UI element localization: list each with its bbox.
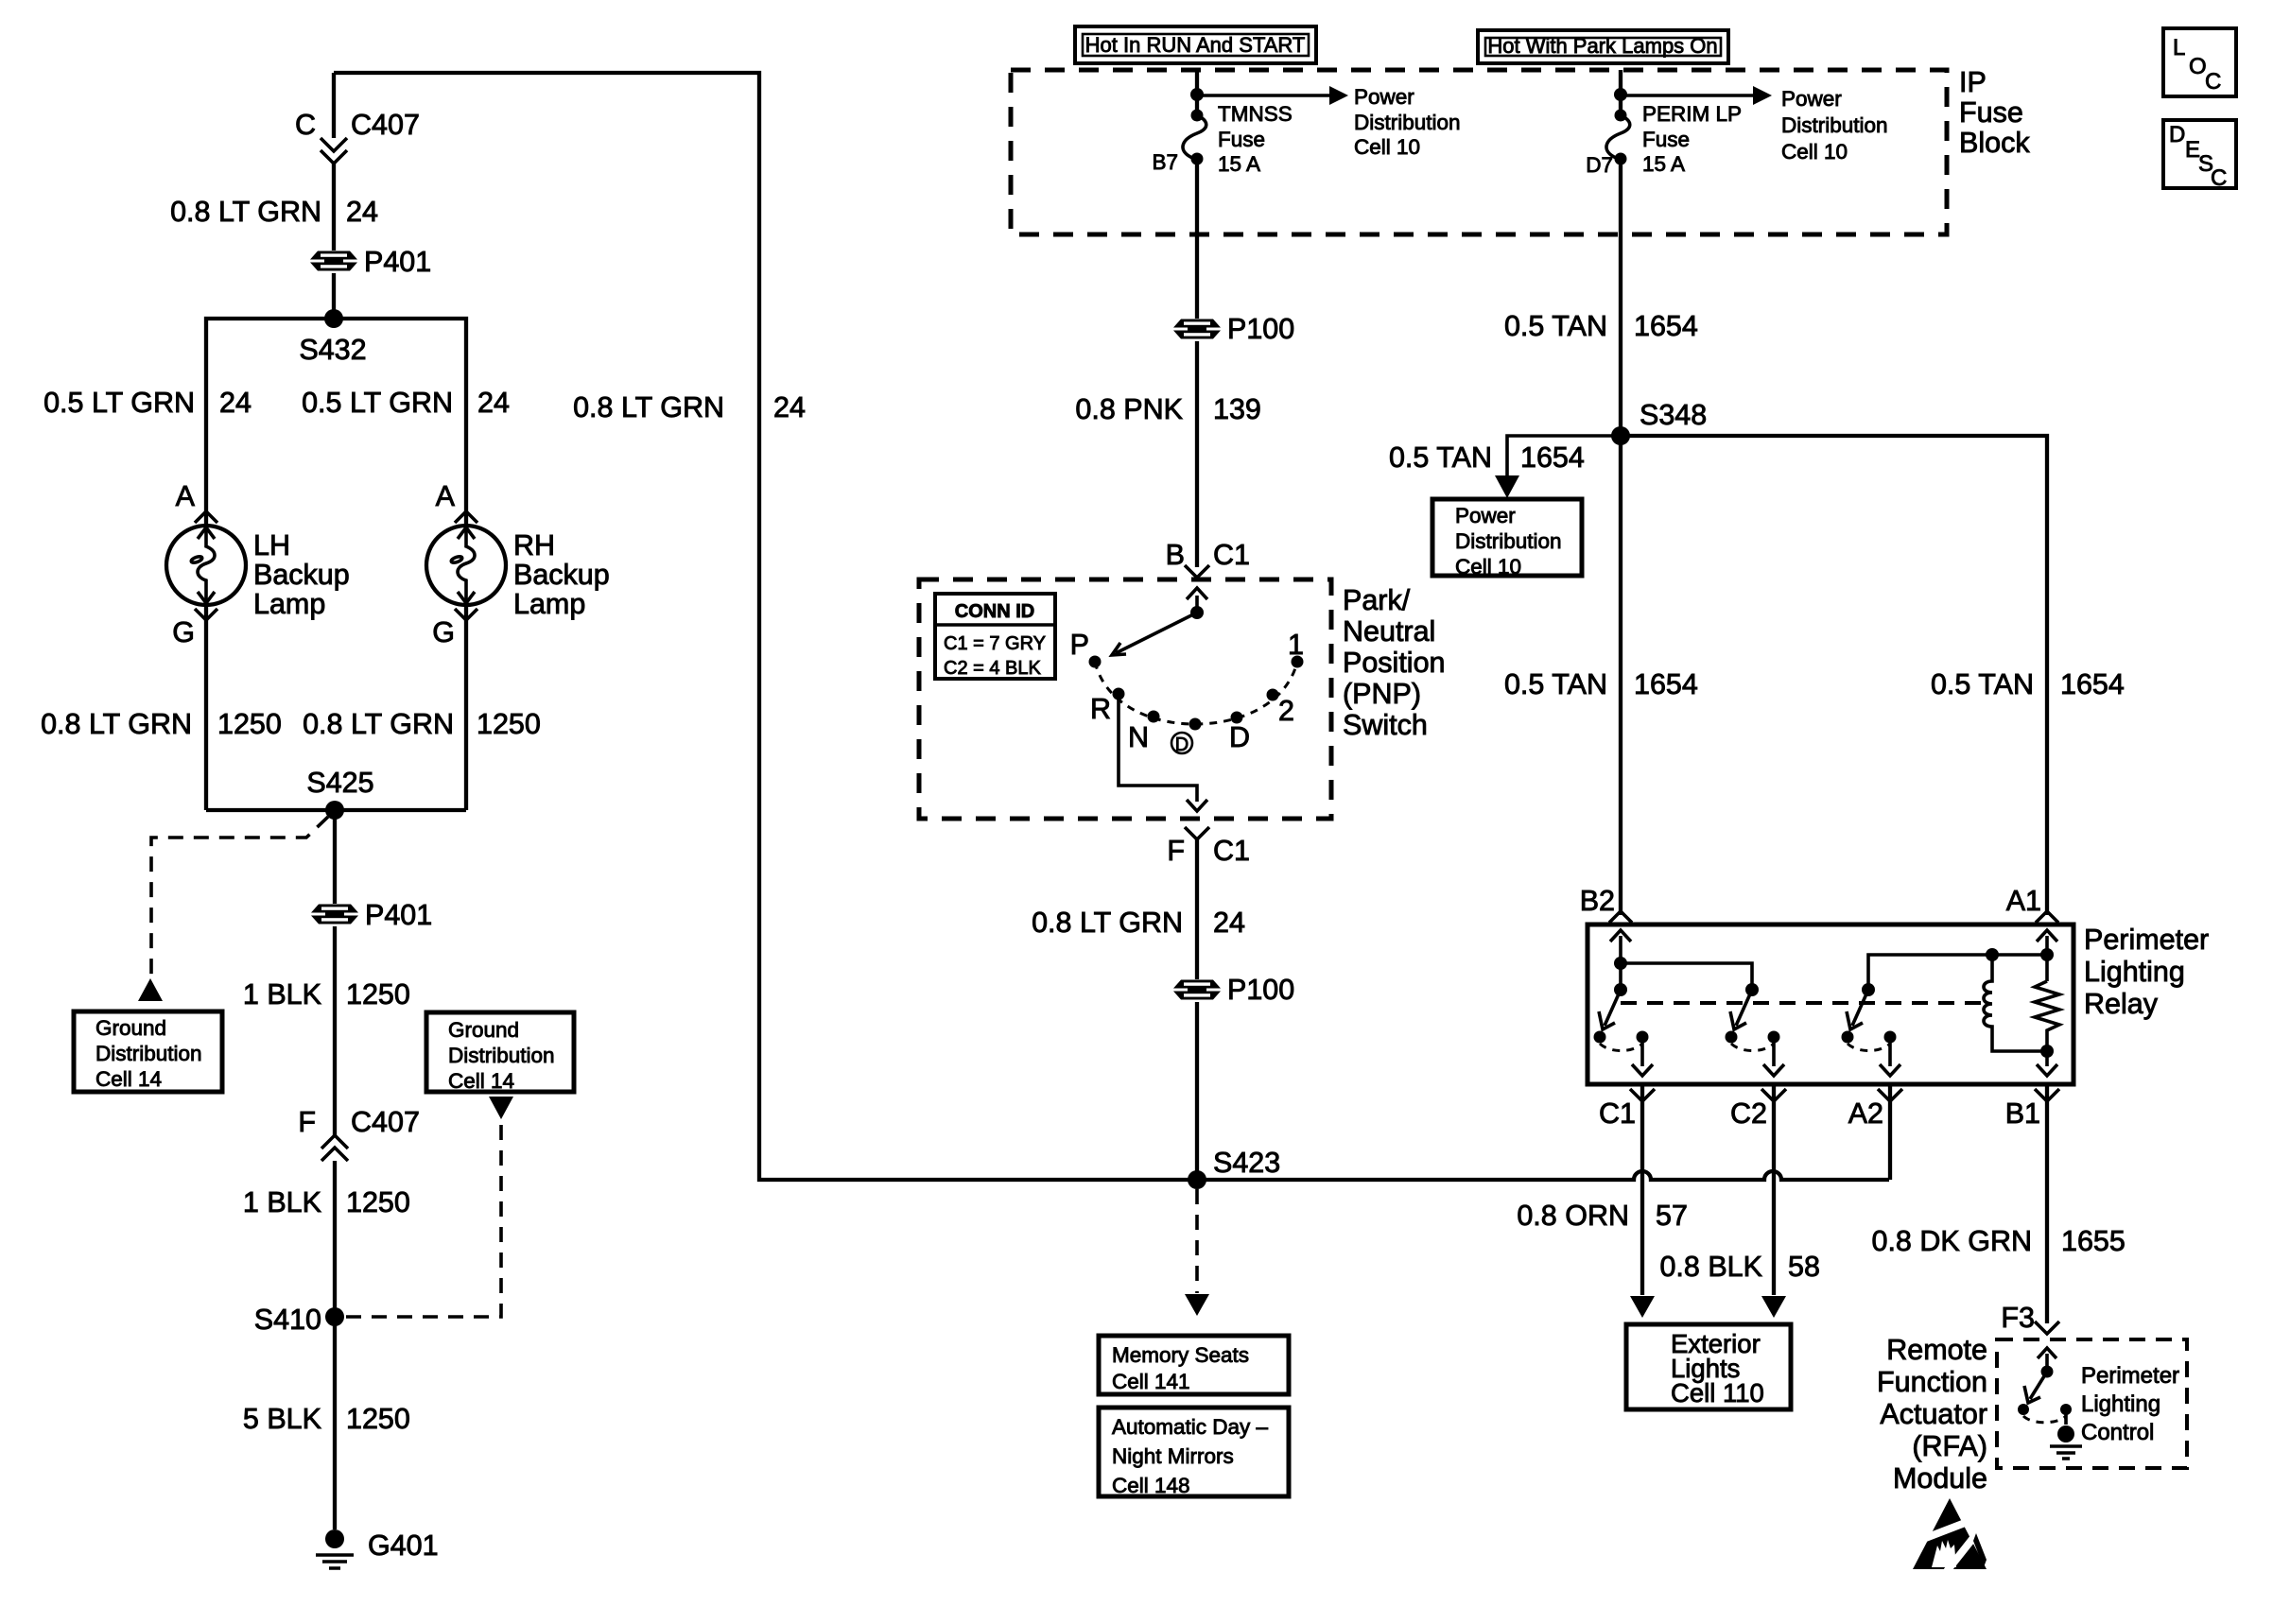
svg-text:58: 58 <box>1788 1251 1820 1283</box>
fuse TMNSS 15 A <box>1191 110 1204 122</box>
svg-text:F3: F3 <box>2001 1302 2035 1334</box>
contact D <box>1231 712 1243 724</box>
node: PERIM LP feed junction <box>1614 88 1627 101</box>
contact N <box>1148 711 1160 723</box>
svg-text:Module: Module <box>1893 1462 1987 1494</box>
LH backup lamp <box>166 526 246 605</box>
svg-text:0.8 ORN: 0.8 ORN <box>1517 1200 1629 1232</box>
wire: F to P100 lower <box>1195 839 1199 979</box>
relay A1 internal feed with up arrow <box>2045 936 2049 981</box>
svg-text:IP: IP <box>1959 66 1987 98</box>
svg-text:B2: B2 <box>1580 885 1615 917</box>
wire: S425 tie bar <box>206 808 466 812</box>
box: Hot With Park Lamps On (double border) <box>1478 30 1728 63</box>
relay switch 1 contacts <box>1594 1031 1606 1044</box>
svg-text:Cell 148: Cell 148 <box>1112 1474 1190 1497</box>
svg-text:Fuse: Fuse <box>1218 128 1265 151</box>
svg-text:139: 139 <box>1213 393 1261 425</box>
svg-text:F: F <box>1167 835 1185 867</box>
connector C2 out of relay <box>1772 1084 1776 1180</box>
wire: S348 over to A1 riser <box>1621 436 2047 915</box>
arrow to Power Distribution Cell 10 (right) <box>1621 94 1753 97</box>
circled D indicator <box>1171 733 1192 753</box>
svg-text:1 BLK: 1 BLK <box>243 1186 321 1218</box>
wire: C407 to P401 <box>332 164 336 251</box>
wire: fuse D7 down to S348 <box>1619 159 1622 436</box>
perimeter lighting control switch input arrow <box>2045 1354 2049 1372</box>
svg-text:15 A: 15 A <box>1642 152 1685 176</box>
relay resistor <box>2035 981 2059 1051</box>
splice S423 <box>1188 1170 1206 1189</box>
relay switch 3 output to A2 <box>1888 1037 1892 1066</box>
svg-text:(RFA): (RFA) <box>1912 1430 1987 1462</box>
svg-text:Actuator: Actuator <box>1880 1398 1987 1430</box>
connector C407 (terminal C) <box>321 138 347 151</box>
svg-text:R: R <box>1090 693 1111 725</box>
wire: P401 to C407 (terminal F) <box>333 926 337 1136</box>
PNP switch common input arrow <box>1195 596 1199 613</box>
relay switch 2 pivot and arm <box>1745 983 1759 996</box>
svg-text:C1 = 7 GRY: C1 = 7 GRY <box>944 633 1046 654</box>
svg-text:Position: Position <box>1343 647 1446 679</box>
svg-text:S423: S423 <box>1213 1147 1280 1179</box>
wire: P401 to splice S432 <box>332 273 336 319</box>
svg-text:1 BLK: 1 BLK <box>243 978 321 1011</box>
pass-through grommet P100 (upper) <box>1173 320 1221 339</box>
svg-text:0.8 LT GRN: 0.8 LT GRN <box>1032 907 1183 939</box>
svg-text:Cell 10: Cell 10 <box>1354 135 1420 159</box>
pass-through grommet P401 (upper) <box>310 251 357 271</box>
svg-text:S348: S348 <box>1640 399 1707 431</box>
svg-text:1250: 1250 <box>477 708 541 740</box>
svg-text:C: C <box>2211 165 2227 191</box>
splice S432 <box>324 309 343 328</box>
wire: S410 to ground G401 <box>333 1317 337 1529</box>
svg-text:1655: 1655 <box>2061 1225 2126 1257</box>
relay switch 3 pivot and arm <box>1862 983 1875 996</box>
svg-text:C1: C1 <box>1213 835 1250 867</box>
svg-text:C: C <box>2205 69 2221 95</box>
relay switch 1 output to C1 <box>1640 1037 1644 1066</box>
svg-text:15 A: 15 A <box>1218 152 1260 176</box>
dashed box: IP Fuse Block <box>1011 70 1947 234</box>
svg-text:Cell 14: Cell 14 <box>95 1067 162 1091</box>
svg-text:B1: B1 <box>2005 1097 2040 1130</box>
ESD sensitive device symbol <box>1913 1498 1987 1575</box>
wire: S432 branch to both backup lamps <box>206 319 466 526</box>
relay mechanical linkage (dashed) <box>1621 1001 1982 1005</box>
pass-through grommet P100 (lower) <box>1173 980 1221 1000</box>
svg-text:N: N <box>1128 721 1149 753</box>
svg-text:2: 2 <box>1278 695 1294 727</box>
splice S410 <box>325 1307 344 1326</box>
svg-text:0.8 DK GRN: 0.8 DK GRN <box>1872 1225 2033 1257</box>
contact 1 <box>1292 656 1304 668</box>
grounded ball contact <box>2064 1409 2068 1425</box>
box: Automatic Day - Night Mirrors Cell 148 <box>1099 1408 1289 1496</box>
relay switch 3 contacts <box>1842 1031 1854 1044</box>
box: LOC flag <box>2163 28 2236 96</box>
svg-text:P100: P100 <box>1227 974 1294 1006</box>
RH backup lamp <box>426 526 506 605</box>
svg-text:1250: 1250 <box>346 1403 410 1435</box>
svg-text:Distribution: Distribution <box>1455 529 1562 553</box>
wire: top feed from C407 run over to S423 riser <box>334 73 1889 1180</box>
svg-text:D: D <box>1229 721 1250 753</box>
svg-text:Backup: Backup <box>253 559 350 591</box>
connector B1 out of relay <box>2045 1084 2049 1323</box>
svg-text:Cell 10: Cell 10 <box>1455 555 1521 579</box>
svg-text:1654: 1654 <box>1520 441 1585 474</box>
branch arrow from S348 to Power Distribution Cell 10 <box>1507 436 1621 477</box>
relay coil <box>1984 955 2047 1051</box>
box: Hot In RUN And START (double border) <box>1075 26 1316 63</box>
svg-text:24: 24 <box>346 196 378 228</box>
box: DESC flag <box>2163 120 2236 188</box>
wire: RH lamp down to S425 <box>464 605 468 810</box>
svg-text:0.8 PNK: 0.8 PNK <box>1075 393 1183 425</box>
svg-text:S410: S410 <box>254 1304 321 1336</box>
svg-text:C: C <box>295 109 316 141</box>
svg-text:Lamp: Lamp <box>253 588 325 620</box>
svg-text:LH: LH <box>253 529 290 561</box>
svg-text:1250: 1250 <box>346 1186 410 1218</box>
svg-text:Ground: Ground <box>448 1018 519 1042</box>
svg-text:O: O <box>2189 54 2207 79</box>
svg-text:57: 57 <box>1656 1200 1688 1232</box>
pass-through grommet P401 (lower) <box>311 905 358 924</box>
svg-text:P100: P100 <box>1227 313 1294 345</box>
svg-text:C2 = 4 BLK: C2 = 4 BLK <box>944 658 1042 679</box>
svg-text:D: D <box>1175 734 1189 755</box>
svg-text:24: 24 <box>219 387 252 419</box>
box: Memory Seats Cell 141 <box>1099 1336 1289 1394</box>
svg-text:Power: Power <box>1781 87 1842 111</box>
svg-text:Automatic Day –: Automatic Day – <box>1112 1415 1269 1439</box>
wire: C2 drop to Exterior Lights <box>1772 1180 1776 1295</box>
relay switch 3 feed from A1 bar <box>1868 955 2047 990</box>
svg-text:Hot In RUN And START: Hot In RUN And START <box>1085 33 1306 57</box>
relay switch 2 contacts <box>1726 1031 1738 1044</box>
contact bottom (D engaged) <box>1189 718 1202 731</box>
relay switch 2 output to C2 <box>1772 1037 1776 1066</box>
PNP switch wiper arm (pointing to P) <box>1116 613 1197 653</box>
svg-text:0.8 BLK: 0.8 BLK <box>1659 1251 1762 1283</box>
svg-text:CONN ID: CONN ID <box>955 601 1034 622</box>
svg-text:Cell 110: Cell 110 <box>1671 1378 1764 1408</box>
connector C1 terminal F <box>1185 827 1209 839</box>
svg-text:Ground: Ground <box>95 1016 166 1040</box>
svg-text:1654: 1654 <box>1634 310 1698 342</box>
svg-text:Lamp: Lamp <box>513 588 585 620</box>
svg-text:Power: Power <box>1354 85 1414 109</box>
wire: S348 down to relay B2 <box>1619 436 1622 915</box>
svg-text:P401: P401 <box>364 246 431 278</box>
svg-text:Relay: Relay <box>2084 988 2159 1020</box>
svg-text:Distribution: Distribution <box>1781 113 1888 137</box>
wire: S425 down to P401 lower <box>333 810 337 904</box>
svg-text:G: G <box>172 616 195 648</box>
terminal G of LH backup lamp <box>195 609 217 620</box>
svg-text:C2: C2 <box>1730 1097 1767 1130</box>
svg-text:P401: P401 <box>365 899 432 931</box>
svg-text:Night Mirrors: Night Mirrors <box>1112 1444 1234 1468</box>
svg-text:0.5 LT GRN: 0.5 LT GRN <box>302 387 453 419</box>
wire: P100 down to S423 <box>1195 1002 1199 1180</box>
box: Exterior Lights Cell 110 <box>1626 1324 1791 1409</box>
svg-text:Cell 14: Cell 14 <box>448 1069 514 1093</box>
dashed reference from S423 to Memory Seats <box>1195 1189 1199 1293</box>
svg-text:0.8 LT GRN: 0.8 LT GRN <box>170 196 321 228</box>
wire: feed into TMNSS fuse <box>1195 70 1199 115</box>
svg-text:Hot With Park Lamps On: Hot With Park Lamps On <box>1487 34 1717 58</box>
svg-text:1250: 1250 <box>346 978 410 1011</box>
wire: R contact to output terminal F <box>1119 694 1197 802</box>
wire: PERIM LP feed <box>1619 70 1622 115</box>
svg-text:B: B <box>1166 539 1185 571</box>
svg-text:G: G <box>432 616 455 648</box>
svg-text:Distribution: Distribution <box>448 1044 555 1067</box>
PNP switch pivot <box>1190 606 1204 619</box>
svg-text:F: F <box>298 1106 316 1138</box>
svg-text:C407: C407 <box>351 109 420 141</box>
svg-text:S425: S425 <box>306 767 373 799</box>
svg-text:0.8 LT GRN: 0.8 LT GRN <box>41 708 192 740</box>
svg-text:A: A <box>176 480 196 512</box>
svg-text:A: A <box>436 480 456 512</box>
svg-text:Control: Control <box>2081 1420 2154 1445</box>
svg-text:0.8 LT GRN: 0.8 LT GRN <box>573 391 724 423</box>
wire: stub above connector C407 <box>332 73 336 138</box>
svg-text:Perimeter: Perimeter <box>2084 924 2209 956</box>
svg-text:Switch: Switch <box>1343 709 1428 741</box>
splice S348 <box>1611 426 1630 445</box>
svg-text:Distribution: Distribution <box>95 1042 202 1065</box>
svg-text:24: 24 <box>773 391 806 423</box>
svg-text:1: 1 <box>1288 629 1304 661</box>
svg-text:Cell 141: Cell 141 <box>1112 1370 1190 1393</box>
splice S425 <box>325 801 344 820</box>
connector A2 out of relay <box>1888 1084 1892 1180</box>
contact R <box>1113 688 1125 700</box>
svg-text:Park/: Park/ <box>1343 584 1411 616</box>
svg-text:A2: A2 <box>1848 1097 1883 1130</box>
svg-text:TMNSS: TMNSS <box>1218 102 1293 126</box>
relay feed bar to switch 2 <box>1621 963 1752 990</box>
contact P <box>1089 656 1102 668</box>
svg-text:1654: 1654 <box>2060 668 2125 700</box>
svg-text:Distribution: Distribution <box>1354 111 1461 134</box>
svg-text:(PNP): (PNP) <box>1343 678 1421 710</box>
svg-text:C407: C407 <box>351 1106 420 1138</box>
svg-text:0.5 TAN: 0.5 TAN <box>1389 441 1492 474</box>
svg-text:P: P <box>1070 629 1089 661</box>
wire: C1 drop to Exterior Lights <box>1640 1180 1644 1295</box>
arrow to Power Distribution Cell 10 (left) <box>1197 94 1329 97</box>
svg-text:Fuse: Fuse <box>1642 128 1690 151</box>
svg-text:Block: Block <box>1959 127 2030 159</box>
perimeter lighting control switch arm <box>2030 1372 2047 1399</box>
svg-text:Power: Power <box>1455 504 1516 527</box>
svg-text:24: 24 <box>1213 907 1245 939</box>
svg-text:S432: S432 <box>299 334 366 366</box>
relay switch 1 pivot and arm <box>1614 983 1627 996</box>
svg-text:24: 24 <box>477 387 510 419</box>
svg-text:G401: G401 <box>368 1529 439 1562</box>
svg-text:5 BLK: 5 BLK <box>243 1403 321 1435</box>
svg-text:Function: Function <box>1877 1366 1987 1398</box>
svg-text:1250: 1250 <box>217 708 282 740</box>
svg-text:0.8 LT GRN: 0.8 LT GRN <box>303 708 454 740</box>
svg-text:0.5 TAN: 0.5 TAN <box>1504 668 1607 700</box>
svg-text:C1: C1 <box>1213 539 1250 571</box>
svg-text:PERIM LP: PERIM LP <box>1642 102 1742 126</box>
box: Perimeter Lighting Relay <box>1588 924 2073 1084</box>
svg-text:Memory Seats: Memory Seats <box>1112 1343 1249 1367</box>
box: Ground Distribution Cell 14 (right) <box>426 1012 574 1092</box>
svg-text:RH: RH <box>513 529 555 561</box>
svg-text:Backup: Backup <box>513 559 610 591</box>
dashed ground reference from S425 to left Ground Distribution <box>151 817 328 980</box>
ground G401 <box>325 1529 344 1548</box>
svg-text:A1: A1 <box>2006 885 2041 917</box>
svg-text:1654: 1654 <box>1634 668 1698 700</box>
terminal G of RH backup lamp <box>455 609 477 620</box>
fuse PERIM LP 15 A <box>1615 110 1627 122</box>
dashed travel arc <box>1095 662 1297 724</box>
svg-text:Fuse: Fuse <box>1959 96 2023 129</box>
svg-text:Lighting: Lighting <box>2084 956 2185 988</box>
svg-text:L: L <box>2173 35 2185 60</box>
svg-text:Neutral: Neutral <box>1343 615 1435 648</box>
wire: fuse B7 down to P100 <box>1195 159 1199 319</box>
svg-text:0.5 LT GRN: 0.5 LT GRN <box>43 387 195 419</box>
box: CONN ID table <box>935 594 1055 679</box>
relay B2 internal feed with up arrow <box>1619 936 1622 990</box>
svg-text:Perimeter: Perimeter <box>2081 1363 2179 1389</box>
contact 2 <box>1267 689 1279 701</box>
relay output B1 down arrow <box>2045 1051 2049 1066</box>
svg-text:Remote: Remote <box>1886 1334 1987 1366</box>
wire: C407 to S410 <box>333 1161 337 1317</box>
box: Ground Distribution Cell 14 (left) <box>74 1011 222 1092</box>
svg-text:0.5 TAN: 0.5 TAN <box>1504 310 1607 342</box>
dashed box: RFA module outline <box>1997 1339 2187 1468</box>
box: Power Distribution Cell 10 (under S348) <box>1432 499 1582 576</box>
node: TMNSS feed junction <box>1190 88 1204 101</box>
wire: P100 to PNP switch terminal B <box>1195 341 1199 567</box>
connector C1 out of relay <box>1640 1084 1644 1180</box>
svg-text:C1: C1 <box>1599 1097 1636 1130</box>
svg-text:D7: D7 <box>1586 153 1613 177</box>
svg-text:Cell 10: Cell 10 <box>1781 140 1848 164</box>
svg-text:B7: B7 <box>1152 150 1178 174</box>
svg-text:Lighting: Lighting <box>2081 1391 2160 1417</box>
perimeter lighting control contacts <box>2018 1404 2029 1415</box>
wire: LH lamp down to S425 <box>204 605 208 810</box>
svg-text:0.5 TAN: 0.5 TAN <box>1931 668 2034 700</box>
dashed ground reference from S410 to right Ground Distribution <box>346 1121 501 1317</box>
dashed box: Park/Neutral Position (PNP) Switch <box>919 579 1331 819</box>
svg-text:D: D <box>2169 122 2185 147</box>
